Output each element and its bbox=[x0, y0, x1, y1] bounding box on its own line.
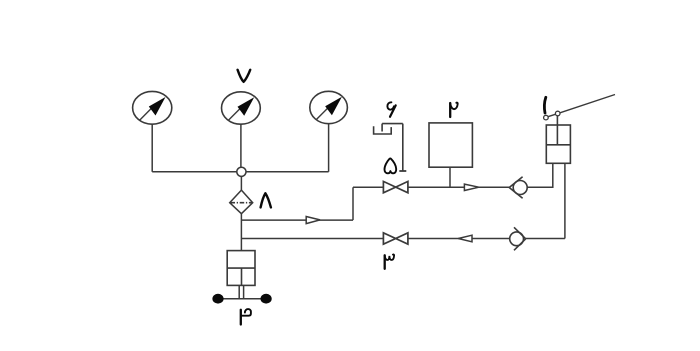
node: manifold junction circle bbox=[237, 167, 246, 176]
wire: left gauge drop bbox=[151, 124, 153, 172]
flow arrow right on branch bbox=[306, 217, 320, 224]
wire: device 6 drop bbox=[402, 124, 404, 171]
pressure gauge middle (group 7) bbox=[222, 92, 261, 124]
label 2 bbox=[450, 103, 458, 117]
label 7 bbox=[238, 70, 251, 82]
cylinder 1 pivot circle bbox=[544, 115, 549, 120]
wire: junction to filter bbox=[240, 176, 242, 190]
pressure gauge right (group 7) bbox=[310, 91, 348, 123]
label 8 bbox=[261, 193, 271, 207]
wire: right gauge drop bbox=[328, 124, 330, 172]
cylinder 1 lever bbox=[546, 95, 615, 118]
check valve upper bbox=[509, 177, 527, 198]
wire: valve 3 to check valve lower bbox=[408, 238, 510, 240]
wire: component 2 drop bbox=[449, 167, 451, 187]
wire: branch upper (to riser) bbox=[241, 219, 353, 221]
flow arrow right on upper line bbox=[464, 184, 479, 190]
cylinder 1 (body) bbox=[546, 116, 570, 164]
power unit 4 mount: double stem bbox=[239, 285, 243, 298]
wire: lower line left segment bbox=[241, 238, 383, 240]
level device 6 (cup) bbox=[374, 124, 403, 134]
wire: gauge manifold bbox=[152, 171, 328, 173]
wire: valve 5 to component 2 tap bbox=[408, 186, 509, 188]
label 3 bbox=[385, 254, 394, 268]
label 4 bbox=[241, 309, 251, 324]
label 6 bbox=[387, 102, 395, 117]
wire: cylinder right leg down bbox=[564, 163, 566, 238]
wire: riser bbox=[352, 187, 354, 220]
wire: lower line right segment bbox=[526, 238, 565, 240]
flow arrow left on lower line bbox=[458, 235, 472, 242]
power unit 4 mount: axle bbox=[218, 298, 266, 300]
wire: middle gauge drop bbox=[240, 124, 242, 167]
pressure gauge left (group 7) bbox=[133, 91, 172, 124]
power unit 4 mount: right foot bbox=[261, 294, 272, 304]
component 2 (box) bbox=[429, 123, 472, 167]
filter 8 (diamond) bbox=[230, 190, 253, 214]
label 5 bbox=[385, 158, 397, 173]
wire: riser to valve 5 bbox=[353, 186, 383, 188]
valve 3 (shut-off bowtie) bbox=[383, 233, 408, 244]
label 1 bbox=[544, 97, 545, 113]
power unit 4 mount: left foot bbox=[212, 294, 223, 304]
check valve lower bbox=[510, 227, 526, 250]
valve 5 (shut-off bowtie) bbox=[383, 181, 408, 192]
power unit 4 (pump box) bbox=[227, 251, 255, 286]
wire: filter down to power unit bbox=[240, 214, 242, 251]
device 6 drop end tick bbox=[399, 170, 406, 172]
wire: check valve to cylinder leg bbox=[527, 163, 553, 187]
cylinder 1 rod circle bbox=[555, 111, 560, 116]
